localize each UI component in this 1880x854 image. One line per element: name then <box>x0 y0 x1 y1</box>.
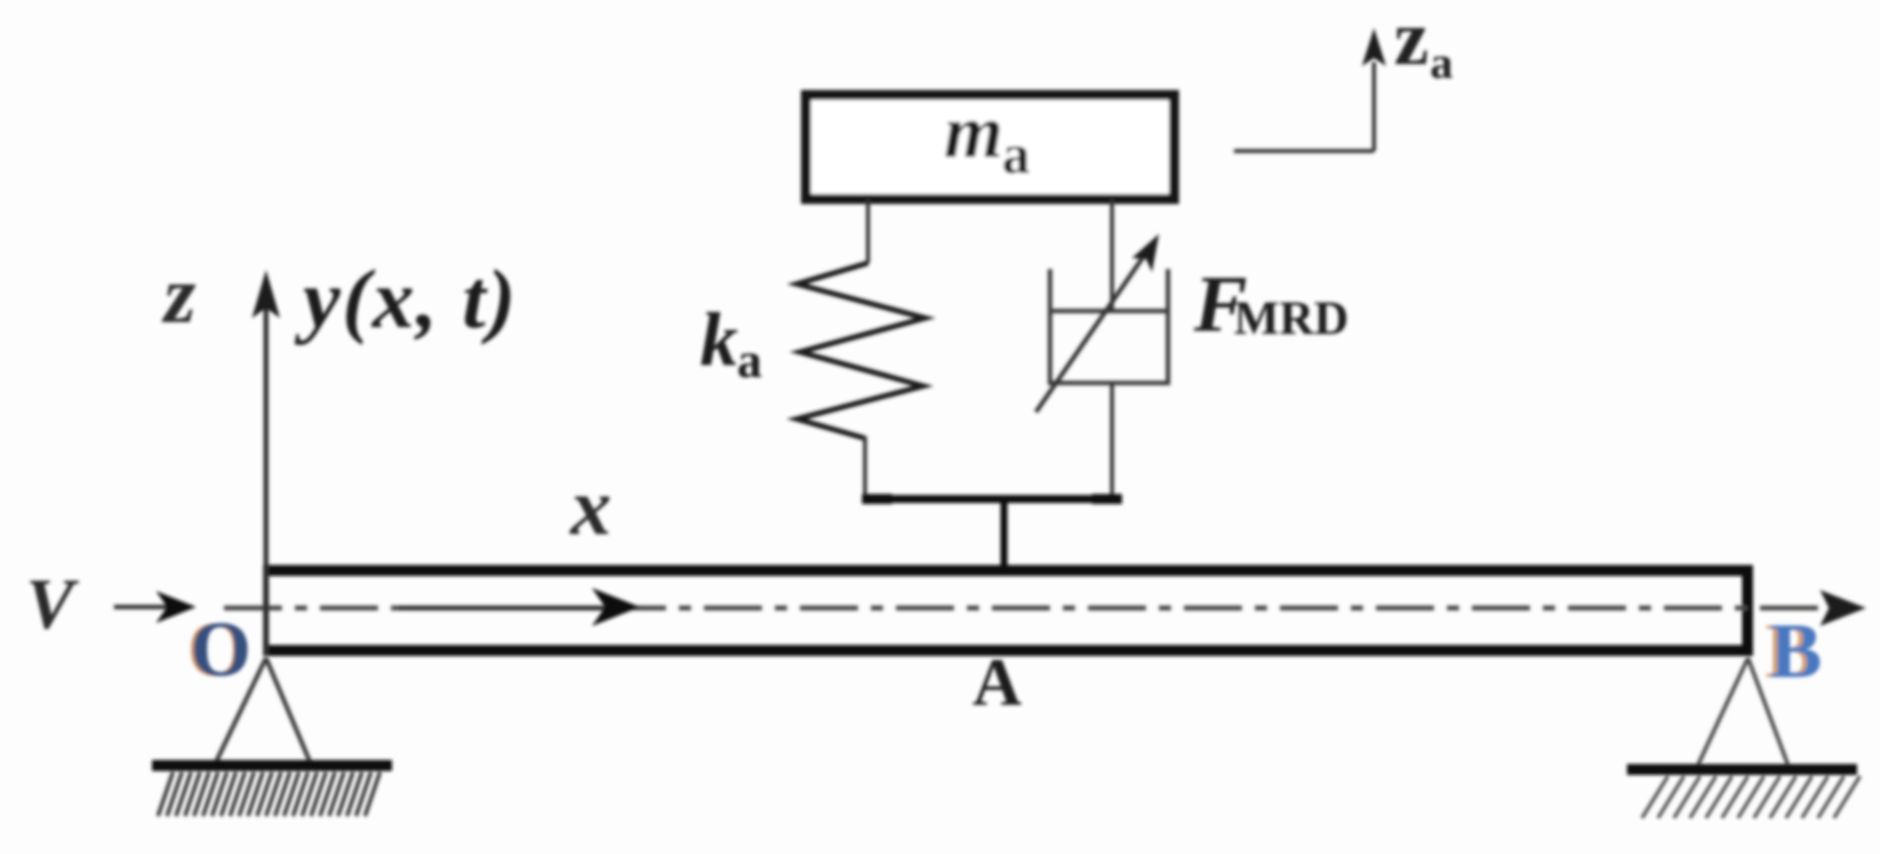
beam left edge <box>263 565 269 656</box>
svg-text:x: x <box>570 461 612 552</box>
label y(x,t) <box>294 253 518 346</box>
ground hatching right <box>1642 776 1860 818</box>
svg-text:V: V <box>26 564 79 644</box>
label x <box>570 461 612 552</box>
connector bar to beam at A <box>1001 499 1008 568</box>
svg-text:O: O <box>191 605 252 692</box>
ground line left <box>152 760 392 771</box>
svg-text:k: k <box>700 298 738 382</box>
svg-text:B: B <box>1770 607 1822 694</box>
beam bottom flange <box>263 645 1753 656</box>
beam centerline dash-dot <box>224 606 1830 611</box>
svg-text:z: z <box>1394 0 1429 81</box>
damper piston plate <box>1050 309 1168 314</box>
label ka <box>700 298 762 388</box>
spring ka <box>797 263 925 438</box>
wire spring to bar <box>863 436 867 499</box>
svg-text:a: a <box>1430 37 1453 88</box>
svg-text:a: a <box>1002 124 1030 186</box>
svg-text:a: a <box>737 332 762 388</box>
z axis line <box>252 270 280 655</box>
label V <box>26 564 79 644</box>
pin support B triangle <box>1698 658 1788 765</box>
label A <box>972 644 1021 720</box>
damper variable diagonal arrow <box>1036 234 1159 412</box>
centerline right end arrow <box>1820 590 1866 626</box>
V velocity arrow <box>114 591 196 623</box>
label B <box>1765 607 1822 694</box>
label ma <box>944 90 1030 186</box>
svg-text:z: z <box>161 249 196 340</box>
damper rod lower <box>1110 383 1114 499</box>
x direction arrow on centerline <box>398 588 640 626</box>
label O <box>188 605 252 692</box>
ground line right <box>1627 764 1857 775</box>
label FMRD <box>1193 261 1349 349</box>
label za <box>1394 0 1453 88</box>
damper cylinder <box>1050 269 1168 383</box>
label z <box>161 249 196 340</box>
svg-text:MRD: MRD <box>1234 292 1349 345</box>
pin support O triangle <box>216 658 310 762</box>
joining bar spring+damper <box>862 494 1122 504</box>
beam top flange <box>263 565 1753 576</box>
za axis horizontal line <box>1234 149 1374 153</box>
svg-text:m: m <box>944 90 1003 174</box>
svg-text:A: A <box>972 644 1021 720</box>
damper rod upper <box>1110 199 1114 311</box>
ground hatching left <box>158 772 380 816</box>
beam right edge <box>1742 565 1753 656</box>
mass ma box <box>806 95 1174 199</box>
za axis vertical arrow <box>1362 28 1386 151</box>
wire mass to spring <box>866 199 870 263</box>
svg-text:y(x, t): y(x, t) <box>294 253 518 346</box>
